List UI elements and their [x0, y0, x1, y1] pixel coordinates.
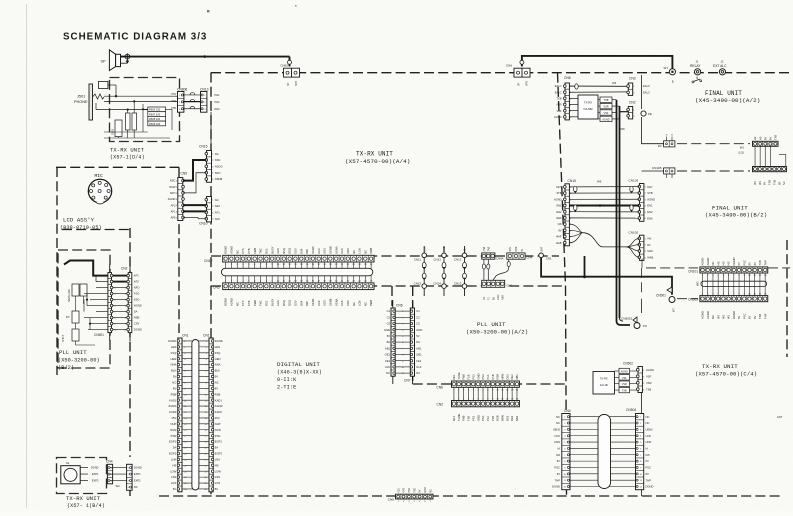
ribbon capsule CN17-CN5	[225, 262, 227, 283]
wires CN101-CN503	[702, 273, 704, 296]
DIGITAL/PLL top boundary	[211, 285, 566, 287]
ribbon capsule CN1	[192, 340, 199, 491]
phone plug to speaker	[121, 62, 128, 64]
TX-RX UNIT A/4 bottom edge	[211, 255, 559, 257]
wire SPO	[183, 173, 206, 193]
TX-RX UNIT X57-1(B/4) dashed box	[57, 458, 107, 494]
component cluster pots	[72, 284, 79, 296]
W1 strip top	[753, 141, 779, 146]
LCD top edge	[56, 166, 179, 168]
wires CN6-CN2	[453, 387, 455, 400]
wire CN102 to CN101 dashed	[641, 259, 643, 268]
wires CN8 to block	[569, 97, 578, 99]
vertical wires W1	[754, 146, 756, 166]
wire CN504 bottom to boundary	[641, 490, 643, 496]
resistor cluster left	[126, 113, 131, 130]
wire to R2	[642, 117, 664, 144]
resistors R606-R609 220	[148, 107, 166, 112]
capsule cable CN4-CN504	[570, 416, 636, 418]
TX-RX UNIT A/4 boundary left edge	[210, 73, 212, 497]
relay switch glyph	[694, 79, 701, 82]
thick wires AF1 AF2 AF6	[183, 204, 206, 206]
right boundary x787	[786, 240, 788, 357]
connector CN12/CN12 column	[464, 246, 466, 296]
block TX-RX C/4-5B2	[578, 95, 598, 119]
wire PH6 down to CN15	[210, 112, 212, 148]
TX-RX UNIT A/4 boundary right edge	[558, 73, 566, 286]
PLL UNIT A/2 box left	[412, 286, 414, 384]
bottom boundary	[159, 495, 780, 497]
wire CN6 up to WT	[522, 56, 673, 69]
wires CN806-CN13	[184, 94, 201, 96]
wires CN4A down to CN1 lower	[483, 259, 485, 280]
junction WT	[669, 69, 675, 75]
thick wire BAT to CN501	[541, 258, 672, 295]
thick wire NSC	[183, 160, 206, 181]
dashed to CN503	[677, 298, 698, 300]
wires cluster to CN2	[96, 287, 108, 289]
block TX-RX A/4-1B	[593, 372, 615, 395]
wires from jack	[104, 95, 177, 97]
DIGITAL unit right edge upper	[391, 286, 393, 306]
paper noise	[0, 0, 1, 1]
left boundary x179	[178, 167, 180, 333]
vert dashed x130	[129, 228, 131, 457]
PLL UNIT B/2 dashed box	[58, 250, 110, 368]
small boxes AGND VSF VSR TXB	[619, 368, 630, 373]
wire CN2 left to W6	[620, 111, 629, 113]
connector CN4A block	[482, 253, 495, 259]
WG capsule	[701, 281, 767, 286]
L wire right	[779, 155, 786, 167]
connector CN4 block	[507, 253, 525, 259]
PLL UNIT A/2 box bottom	[413, 383, 566, 385]
drop into CN62	[289, 57, 291, 67]
internal wires D/4	[104, 131, 148, 133]
wire from CN4 down with bump	[508, 259, 510, 268]
W6 thick cable	[616, 100, 618, 321]
small boxes TXB VSR VSF AGND	[600, 97, 612, 102]
dashed wire W1 bottom	[677, 170, 750, 172]
page fold line	[26, 4, 28, 508]
connector CN1 lower block	[482, 280, 505, 287]
right units boundary lower	[566, 286, 567, 496]
wire to CN105	[642, 170, 664, 172]
W1 strip bottom	[753, 167, 787, 172]
wire down to CN5051	[641, 268, 643, 294]
small cap top left	[99, 81, 108, 88]
connector CN13/CN14 column	[443, 246, 445, 296]
wire speaker to CN62	[121, 56, 290, 58]
wire CN502 to CN504	[641, 392, 643, 413]
pennant flag	[667, 287, 672, 293]
connector CN1 BAT	[539, 253, 544, 258]
thick wire AF to CN2	[64, 261, 108, 276]
connector CN11/CN13 column	[423, 246, 425, 296]
speck top	[207, 10, 209, 12]
connector W2 col	[127, 464, 133, 490]
wire PE riser	[641, 75, 643, 109]
LCD bottom dashed	[62, 229, 130, 231]
TX-RX UNIT X57-1(D/4) dashed box	[110, 78, 180, 142]
TX-RX UNIT A/4 boundary top edge	[211, 72, 790, 74]
left LCD boundary vertical	[56, 167, 58, 375]
wires EALC to CN3 W4	[569, 85, 628, 87]
dashed wire W1 top	[677, 143, 750, 145]
